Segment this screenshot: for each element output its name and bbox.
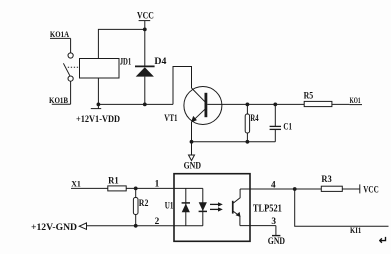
svg-text:R4: R4 xyxy=(250,113,259,123)
svg-text:C1: C1 xyxy=(283,121,292,131)
terminal KO1A xyxy=(50,30,71,53)
contact pole circle (top) xyxy=(68,53,73,58)
terminal KO1B xyxy=(49,81,71,105)
node junction base/R4 xyxy=(246,103,250,107)
svg-text:GND: GND xyxy=(184,162,202,172)
node junction pin4/R3/KI1 xyxy=(293,187,297,191)
wire junction to R3 xyxy=(295,188,322,190)
ground tick +12V1-VDD xyxy=(76,104,120,125)
capacitor C1 xyxy=(270,104,293,141)
node junction emitter/GND xyxy=(190,140,194,144)
svg-text:VT1: VT1 xyxy=(164,114,177,124)
svg-text:U1: U1 xyxy=(165,201,174,211)
linkage dotted line xyxy=(68,66,79,68)
svg-text:↵: ↵ xyxy=(379,235,388,247)
svg-text:R3: R3 xyxy=(321,175,332,185)
transistor VT1 xyxy=(164,87,222,125)
wire emitter down xyxy=(191,122,193,142)
svg-text:4: 4 xyxy=(271,180,276,190)
svg-text:R2: R2 xyxy=(139,198,149,208)
wire R1 to opto pin1 xyxy=(126,187,203,189)
wire opto pin2 xyxy=(87,225,203,227)
svg-text:X1: X1 xyxy=(71,178,81,188)
svg-text:JD1: JD1 xyxy=(120,57,132,67)
node junction VCC/relay-top xyxy=(143,28,147,32)
wire KI1 xyxy=(295,189,389,226)
node junction R1/R2 xyxy=(134,187,138,191)
resistor R1 xyxy=(108,177,126,191)
ground GND (pin 3) xyxy=(268,226,285,247)
LED bridge right branch xyxy=(199,188,207,225)
relay coil JD1 xyxy=(80,57,132,78)
svg-text:R5: R5 xyxy=(304,90,314,100)
svg-text:KO1: KO1 xyxy=(350,96,361,105)
svg-text:TLP521: TLP521 xyxy=(253,203,282,214)
svg-text:+12V-GND: +12V-GND xyxy=(31,223,77,233)
svg-text:GND: GND xyxy=(268,237,285,247)
terminal KO1 xyxy=(349,96,362,105)
svg-text:D4: D4 xyxy=(154,57,166,67)
wire collector riser (stepped) xyxy=(173,67,192,105)
node junction relay-bottom on rail xyxy=(97,103,101,107)
svg-text:KO1A: KO1A xyxy=(50,30,69,39)
svg-text:KI1: KI1 xyxy=(350,225,361,235)
node junction R4-bottom xyxy=(246,140,250,144)
power terminal VCC (top) xyxy=(137,11,154,29)
resistor R5 xyxy=(304,90,350,106)
wire emitter rail xyxy=(192,141,276,143)
svg-text:1: 1 xyxy=(155,179,160,189)
contact pole circle (bottom) xyxy=(68,76,73,81)
wire relay top to VCC line xyxy=(98,29,144,58)
power terminal VCC (right) xyxy=(342,184,378,194)
ground GND (upper) xyxy=(184,142,202,172)
switch arm xyxy=(63,63,70,76)
node junction D4-bottom on rail xyxy=(143,103,147,107)
phototransistor xyxy=(232,189,241,226)
diode D4 xyxy=(135,29,167,104)
svg-text:KO1B: KO1B xyxy=(49,96,69,105)
wire bottom rail (relay/D4 to riser) xyxy=(98,103,173,105)
LED bridge left branch xyxy=(182,188,190,225)
light arrows xyxy=(210,202,223,211)
svg-text:VCC: VCC xyxy=(363,184,378,194)
svg-text:R1: R1 xyxy=(108,177,119,187)
resistor R3 xyxy=(321,175,342,192)
terminal X1 xyxy=(71,178,108,188)
resistor R2 xyxy=(133,188,148,225)
wire base to R4/R5 xyxy=(207,103,304,105)
pin 3 wire xyxy=(240,225,276,227)
resistor R4 xyxy=(245,104,259,141)
node junction base/C1 xyxy=(273,103,277,107)
terminal +12V-GND arrow xyxy=(31,223,87,233)
optocoupler U1 box xyxy=(165,174,250,242)
svg-text:+12V1-VDD: +12V1-VDD xyxy=(76,115,120,125)
wire relay bottom xyxy=(97,78,99,104)
node junction R2-bottom xyxy=(134,224,138,228)
svg-text:VCC: VCC xyxy=(137,11,154,21)
pin 4 wire xyxy=(240,188,295,190)
